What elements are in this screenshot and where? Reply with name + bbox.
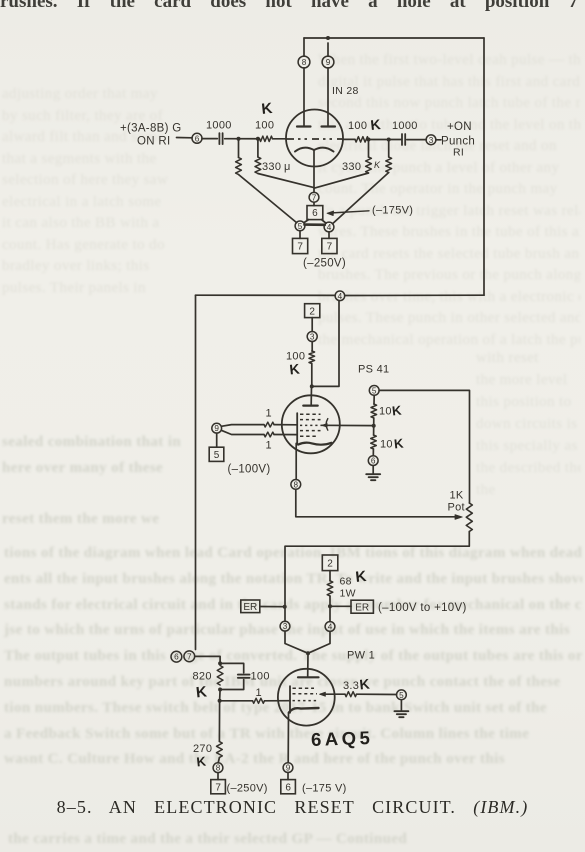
terminal box 7 right xyxy=(322,238,337,253)
wire junction to capacitor right xyxy=(389,139,402,141)
terminal box ER right xyxy=(351,600,373,613)
wire capacitor to terminal 3 xyxy=(407,139,426,141)
svg-text:K: K xyxy=(196,754,208,770)
svg-text:10: 10 xyxy=(379,406,392,418)
terminal box 6 bottom xyxy=(281,780,296,794)
wire ER left to junction xyxy=(260,606,285,608)
terminal 3 bottom xyxy=(280,621,290,631)
svg-text:K: K xyxy=(195,683,208,701)
wire 9 upper lead xyxy=(221,425,264,427)
svg-text:K: K xyxy=(261,100,274,118)
svg-text:ER: ER xyxy=(355,602,369,613)
tube V3 plate bar xyxy=(298,676,319,678)
node rc bottom junction xyxy=(218,688,222,692)
terminal box 5 mid xyxy=(209,447,224,461)
wire junction to ER right xyxy=(330,605,351,607)
node rc top junction xyxy=(218,661,222,665)
wire cathode down bottom xyxy=(287,713,289,763)
wire R3 to terminal 5 diagonal xyxy=(239,175,297,223)
tube V2 plate arrow xyxy=(326,419,328,431)
wire R4 to cathode diagonal xyxy=(258,174,314,188)
svg-text:1: 1 xyxy=(266,440,272,452)
svg-text:K: K xyxy=(359,676,371,693)
svg-text:7: 7 xyxy=(312,193,317,202)
svg-text:330: 330 xyxy=(262,161,281,173)
node junction C xyxy=(367,138,371,142)
svg-text:(–250V): (–250V) xyxy=(303,258,346,270)
pot wiper arrowhead xyxy=(455,515,462,520)
svg-text:K: K xyxy=(355,568,368,586)
tube V2 grid dashes row3 xyxy=(300,424,322,426)
terminal 9 xyxy=(322,56,334,68)
wire junction to R15 xyxy=(220,700,253,702)
wire terminal6 to capacitor xyxy=(202,138,217,140)
tube V1 plate bar right xyxy=(322,125,336,127)
svg-text:K: K xyxy=(289,361,301,378)
svg-text:RI: RI xyxy=(453,147,464,159)
wire rc to grid junction xyxy=(219,690,222,701)
resistor R3 330u left outer xyxy=(238,139,240,158)
svg-text:9: 9 xyxy=(326,58,331,67)
svg-text:330: 330 xyxy=(342,161,361,173)
svg-text:1000: 1000 xyxy=(206,120,232,132)
svg-text:4: 4 xyxy=(327,223,332,232)
wire terminal5 to box7 left xyxy=(299,231,301,239)
node plate junction bottom xyxy=(306,651,310,655)
wire cathode down to terminal 7 xyxy=(313,150,315,192)
svg-text:9: 9 xyxy=(286,764,291,773)
svg-text:(–250V): (–250V) xyxy=(227,783,268,795)
svg-text:1W: 1W xyxy=(340,588,356,600)
node er junction right xyxy=(328,604,332,608)
wire V from terminal4 xyxy=(308,631,330,653)
terminal box 6 xyxy=(307,206,323,220)
terminal box 7 bottom xyxy=(211,780,226,794)
wire plate lead pin 8 xyxy=(303,38,305,56)
node divider junction xyxy=(372,424,376,428)
wire capacitor to grid resistor xyxy=(225,138,260,140)
terminal 8 mid xyxy=(291,480,301,490)
wire 9 lower lead xyxy=(221,430,264,434)
svg-text:5: 5 xyxy=(214,450,220,461)
wire plate to divider xyxy=(322,424,373,426)
node junction on top bus xyxy=(326,36,330,40)
svg-text:PS 41: PS 41 xyxy=(358,364,389,376)
tube V3 grid dashes row1 xyxy=(293,687,315,689)
wire R12 to er junction xyxy=(329,596,331,622)
wire terminal4 to box7 right xyxy=(328,232,330,239)
svg-text:7: 7 xyxy=(327,242,333,253)
svg-text:3: 3 xyxy=(283,622,288,631)
wire to outer junction xyxy=(369,139,389,141)
wire junction right then up to terminal4 xyxy=(312,301,339,387)
terminal 8 xyxy=(298,56,310,68)
svg-text:100: 100 xyxy=(348,120,367,132)
terminal box 2 bottom xyxy=(322,555,338,571)
capacitor C2 1000 right xyxy=(401,134,403,145)
svg-text:820: 820 xyxy=(193,671,212,683)
terminal 3 mid xyxy=(307,332,317,342)
tube V3 screen arrow xyxy=(320,692,326,696)
wire pot bottom to bottom stage xyxy=(285,532,469,622)
node junction A xyxy=(237,137,241,141)
tube V1 plate bar left xyxy=(297,125,311,127)
svg-text:100: 100 xyxy=(255,120,274,132)
svg-text:K: K xyxy=(370,116,382,133)
figure caption xyxy=(0,797,585,818)
svg-text:6: 6 xyxy=(312,208,318,219)
wire cathode down mid xyxy=(295,443,297,479)
wire middle-left edge xyxy=(195,295,197,649)
node junction D xyxy=(387,138,391,142)
terminal 4 bottom xyxy=(325,622,335,632)
svg-text:68: 68 xyxy=(340,576,352,588)
terminal 5 xyxy=(295,221,305,231)
wire R10 to junction xyxy=(373,418,375,426)
wire down to R16 xyxy=(218,701,220,742)
terminal 3 output xyxy=(426,135,436,145)
svg-text:5: 5 xyxy=(298,222,303,231)
svg-text:+ON: +ON xyxy=(447,121,472,133)
svg-text:7: 7 xyxy=(297,242,303,253)
wire lead into terminal 6 xyxy=(177,137,193,139)
svg-text:5: 5 xyxy=(372,386,377,395)
svg-text:2: 2 xyxy=(309,306,315,317)
wire box2b to R12 xyxy=(329,571,331,581)
resistor R1 100 left xyxy=(260,136,273,141)
resistor R2 100 right xyxy=(355,137,369,142)
svg-text:8: 8 xyxy=(216,764,221,773)
terminal 9 bottom xyxy=(283,763,293,773)
svg-text:(–100V): (–100V) xyxy=(228,464,271,476)
terminal box ER left xyxy=(241,600,260,613)
wire terminal8 to pot wiper xyxy=(296,489,457,517)
svg-text:μ: μ xyxy=(284,161,290,173)
svg-text:8: 8 xyxy=(294,480,299,489)
svg-text:6AQ5: 6AQ5 xyxy=(311,727,374,750)
wire bar terminals 5-4 xyxy=(305,223,325,226)
resistor R5 330K right inner xyxy=(368,140,370,158)
resistor R12 68K 1W xyxy=(327,581,333,596)
svg-text:Pot: Pot xyxy=(448,502,465,514)
resistor R9 1 lower xyxy=(264,432,274,437)
tube V2 grid dashes row2 xyxy=(300,419,321,421)
wire terminal9 to box5 xyxy=(216,433,218,447)
svg-text:6: 6 xyxy=(174,653,179,662)
svg-text:4: 4 xyxy=(328,622,333,631)
node er junction left xyxy=(283,605,287,609)
svg-text:3.3: 3.3 xyxy=(343,680,359,692)
wire box6 stub left xyxy=(304,220,309,223)
terminal 6 left pair xyxy=(171,651,182,662)
svg-text:7: 7 xyxy=(187,652,192,661)
terminal 7 cathode xyxy=(309,192,319,202)
resistor R4 330u left inner xyxy=(257,139,259,157)
terminal 6 input xyxy=(192,133,202,143)
tube V3 grid rail xyxy=(289,686,291,713)
svg-text:ON RI: ON RI xyxy=(137,136,170,148)
wire terminal5div to pot xyxy=(379,390,469,503)
resistor R10 10K upper xyxy=(371,404,377,418)
tube V2 plate bar xyxy=(303,405,317,407)
resistor R7 100K xyxy=(309,351,315,364)
resistor R15 1K grid xyxy=(253,698,265,703)
node grid junction bottom xyxy=(218,699,222,703)
wire R13 to terminal5b xyxy=(357,693,397,695)
wire top bus of IN28 stage xyxy=(304,37,484,39)
wire cap to bottom rail xyxy=(220,680,244,690)
wire R7 to plate junction xyxy=(311,364,313,387)
svg-text:6: 6 xyxy=(285,782,291,793)
wire box6 stub right xyxy=(322,220,327,224)
svg-text:1: 1 xyxy=(256,687,262,699)
wire tube grid right to resistor xyxy=(343,138,356,140)
wire middle bus right segment xyxy=(345,294,484,296)
tube V2 envelope PS41 xyxy=(282,395,340,453)
tube V2 grid dashes row4 xyxy=(300,430,321,432)
tube V2 grid rail xyxy=(296,413,298,443)
svg-text:K: K xyxy=(393,436,405,452)
svg-text:K: K xyxy=(374,160,381,170)
resistor R16 270K xyxy=(217,742,223,758)
wire R8 to grid xyxy=(274,424,297,426)
node junction B xyxy=(256,137,260,141)
tube V1 grid dashes xyxy=(287,138,342,140)
wire R11 to terminal6 xyxy=(372,449,374,456)
wire junction to plate bottom xyxy=(307,653,309,676)
svg-text:1K: 1K xyxy=(450,490,464,502)
capacitor C3 100 xyxy=(238,674,250,676)
wire box2 to terminal3 xyxy=(311,318,313,332)
wire terminal3 to R7 xyxy=(311,342,313,352)
wire terminal7 to corner xyxy=(195,656,220,663)
wire terminal8b to box7b xyxy=(217,773,219,780)
wire R9 to grid xyxy=(274,434,297,436)
wire R6 to terminal 4 diagonal xyxy=(333,173,389,224)
svg-text:1: 1 xyxy=(266,408,272,420)
svg-text:2: 2 xyxy=(327,558,333,569)
top body text (cropped line) xyxy=(0,0,578,13)
wire screen to R13 xyxy=(321,693,346,695)
svg-text:IN 28: IN 28 xyxy=(332,85,359,97)
wire plate lead pin 9 xyxy=(327,43,329,56)
svg-text:9: 9 xyxy=(214,424,219,433)
terminal 5 div xyxy=(369,386,379,396)
resistor R13 3.3K xyxy=(345,692,357,697)
terminal box 2 mid xyxy=(305,304,320,318)
wire middle bus left segment xyxy=(196,294,336,296)
tube V2 grid dashes row5 xyxy=(300,435,318,437)
tube V3 grid dashes row2 xyxy=(293,693,318,695)
svg-text:(–175V): (–175V) xyxy=(372,205,413,217)
svg-text:100: 100 xyxy=(251,671,270,683)
wire R15 to grid rail xyxy=(265,700,291,702)
svg-text:10: 10 xyxy=(380,439,393,451)
svg-text:8: 8 xyxy=(302,58,307,67)
svg-text:3: 3 xyxy=(429,136,434,145)
ground bottom right xyxy=(400,700,402,711)
resistor R6 330K right outer xyxy=(388,140,390,158)
wire terminal9b to box6b xyxy=(287,773,289,780)
tube V2 cathode xyxy=(298,443,331,445)
svg-text:(–100V to +10V): (–100V to +10V) xyxy=(378,602,467,614)
resistor R8 1 upper xyxy=(264,422,274,427)
capacitor C1 1000 xyxy=(218,133,220,144)
wire div top xyxy=(373,395,375,404)
terminal 5 bottom xyxy=(397,690,407,700)
wire junction down to plate xyxy=(310,386,312,404)
wire right edge from top bus down to middle stage xyxy=(483,38,485,295)
svg-text:4: 4 xyxy=(338,292,343,301)
tube V3 grid dashes row3 xyxy=(293,700,318,702)
svg-text:6: 6 xyxy=(195,134,200,143)
terminal 4 xyxy=(324,222,334,232)
terminal 4 mid on bus xyxy=(335,291,345,301)
terminal 6 div xyxy=(368,456,378,466)
tube V3 envelope 6AQ5 xyxy=(278,669,335,726)
tube V3 cathode xyxy=(289,708,319,713)
terminal 8 bottom xyxy=(213,763,223,773)
ground div xyxy=(372,466,374,474)
svg-text:6: 6 xyxy=(371,457,376,466)
svg-text:7: 7 xyxy=(215,782,221,793)
terminal 9 mid xyxy=(212,423,222,433)
svg-text:K: K xyxy=(391,403,403,419)
wire R16 to terminal8b xyxy=(218,758,219,763)
wire resistor to tube grid left xyxy=(273,138,287,140)
wire terminal 3 dash to Punch xyxy=(436,139,441,141)
terminal 7 left pair xyxy=(184,651,195,662)
wire cap branch xyxy=(220,663,244,672)
svg-text:PW 1: PW 1 xyxy=(347,650,375,662)
tube V1 envelope IN28 xyxy=(286,110,343,167)
tube V2 grid dashes row1 xyxy=(300,413,321,415)
resistor R14 820K xyxy=(217,666,223,686)
wire R5 to cathode diagonal xyxy=(314,173,368,188)
svg-text:(–175 V): (–175 V) xyxy=(302,783,347,795)
svg-text:5: 5 xyxy=(399,691,404,700)
terminal box 7 left xyxy=(293,238,308,253)
resistor R11 10K lower xyxy=(371,435,377,449)
svg-text:ER: ER xyxy=(243,602,257,613)
svg-text:1000: 1000 xyxy=(392,120,418,132)
pot P1 1K element xyxy=(466,503,472,532)
wire terminal7 to box6 xyxy=(313,202,315,205)
node plate junction mid xyxy=(310,384,314,388)
svg-text:3: 3 xyxy=(310,332,315,341)
wire junction to R11 xyxy=(373,426,375,435)
tube V1 cathode curve xyxy=(295,148,334,152)
svg-text:+(3A-8B) G: +(3A-8B) G xyxy=(120,123,181,135)
wire V from terminal3 xyxy=(285,631,308,653)
